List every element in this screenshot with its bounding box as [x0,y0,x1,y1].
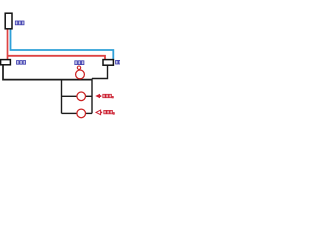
wire: black rung to lamp3 [62,112,78,114]
wire: black from outlet down then left to right rail [92,65,108,79]
lamp1 label (blue) [75,61,84,65]
lamp L1 circle [76,70,85,79]
source box (top-left) [5,13,12,29]
arrow for lamp2 (red, filled) [95,94,100,99]
arrow for lamp3 (red, hollow) [96,110,101,115]
wire: black right rail [91,79,93,114]
outlet box (top-right) [103,60,113,66]
wire: black lamp2 to right rail [85,95,92,97]
lamp L2 circle [77,92,86,101]
lamp3 red label [104,110,114,114]
wire: black rung to lamp2 [62,95,78,97]
lamp L3 circle [77,109,86,118]
outlet label (blue, clipped at edge) [116,60,122,64]
switch box (left-middle) [1,60,11,65]
wire: blue neutral from source box down then right then down to outlet [11,29,114,60]
wire: black lamp3 to right rail [85,112,92,114]
lamp L1 small loop [77,66,80,69]
wire: red live from source box down [7,29,9,60]
wire: black from switch down then right to lamp net [3,65,92,80]
switch label (blue) [17,61,26,65]
wire: black left rail [61,80,63,114]
source box label (blue) [15,21,24,25]
lamp2 red label [103,94,113,98]
wire: red live horizontal to outlet [8,56,106,60]
